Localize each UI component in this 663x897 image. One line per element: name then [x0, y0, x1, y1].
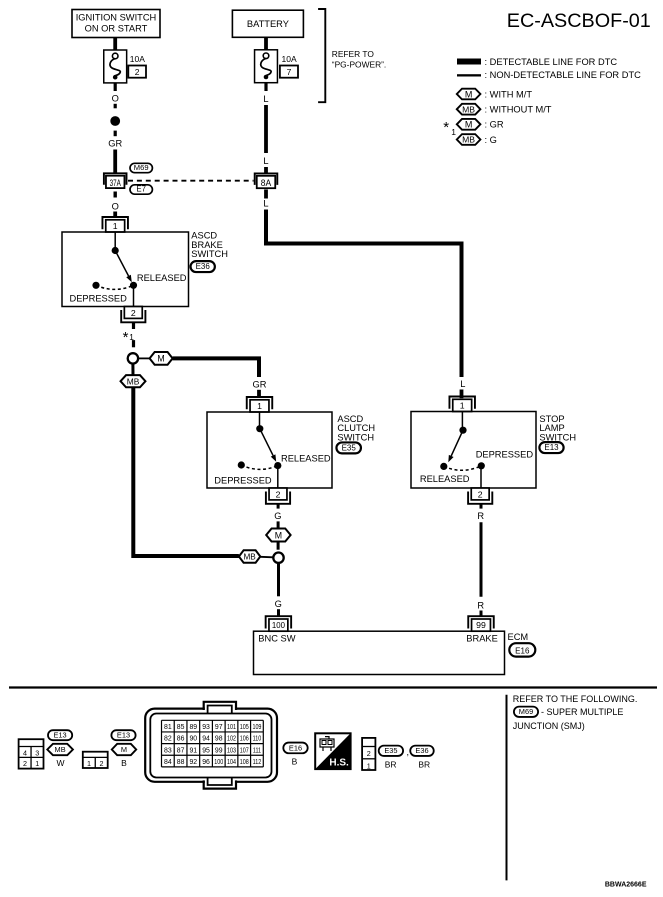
svg-text:E7: E7	[136, 184, 146, 193]
svg-text:1: 1	[257, 401, 262, 411]
svg-text:7: 7	[287, 67, 292, 77]
svg-text:MB: MB	[462, 104, 475, 114]
svg-text:: DETECTABLE LINE FOR DTC: : DETECTABLE LINE FOR DTC	[485, 57, 618, 67]
svg-text:1: 1	[87, 759, 91, 768]
svg-text:DEPRESSED: DEPRESSED	[70, 294, 128, 304]
svg-text:BBWA2666E: BBWA2666E	[605, 882, 647, 889]
svg-text:*: *	[123, 329, 129, 346]
svg-text:90: 90	[189, 736, 197, 743]
svg-text:99: 99	[476, 620, 486, 630]
svg-text:101: 101	[227, 723, 236, 731]
svg-text:“PG-POWER”.: “PG-POWER”.	[332, 59, 386, 69]
svg-text:100: 100	[214, 758, 223, 766]
svg-text:MB: MB	[243, 553, 256, 562]
svg-text:H.S.: H.S.	[329, 757, 349, 768]
svg-text:BNC SW: BNC SW	[258, 633, 295, 643]
svg-text:107: 107	[240, 747, 249, 755]
svg-text:93: 93	[202, 724, 210, 731]
svg-text:IGNITION SWITCH: IGNITION SWITCH	[76, 13, 157, 23]
svg-text:DEPRESSED: DEPRESSED	[476, 450, 534, 460]
svg-text:M: M	[275, 530, 282, 540]
svg-text:10A: 10A	[282, 54, 297, 64]
svg-text:: WITH M/T: : WITH M/T	[485, 89, 533, 99]
svg-text:E35: E35	[384, 746, 397, 755]
svg-text:4: 4	[23, 749, 27, 758]
svg-text:2: 2	[367, 749, 371, 758]
svg-text:97: 97	[215, 724, 223, 731]
svg-text:B: B	[121, 758, 127, 768]
svg-text:2: 2	[478, 490, 483, 500]
svg-text:M69: M69	[134, 163, 149, 172]
svg-text:86: 86	[177, 736, 185, 743]
svg-text:37A: 37A	[110, 178, 122, 188]
svg-text:O: O	[112, 94, 119, 104]
svg-text:: GR: : GR	[485, 120, 504, 130]
svg-text:: WITHOUT M/T: : WITHOUT M/T	[485, 105, 552, 115]
svg-text:ECM: ECM	[508, 632, 529, 642]
svg-text:E16: E16	[289, 743, 302, 752]
svg-text:M: M	[157, 354, 164, 364]
svg-text:96: 96	[202, 759, 210, 766]
svg-text:EC-ASCBOF-01: EC-ASCBOF-01	[507, 10, 651, 32]
svg-text:E36: E36	[196, 262, 211, 271]
svg-text:GR: GR	[253, 380, 267, 390]
svg-text:81: 81	[164, 724, 172, 731]
svg-text:91: 91	[189, 747, 197, 754]
svg-text:98: 98	[215, 736, 223, 743]
svg-text:RELEASED: RELEASED	[420, 474, 470, 484]
svg-text:1: 1	[367, 761, 371, 770]
svg-text:W: W	[56, 758, 64, 768]
svg-text:L: L	[263, 156, 268, 166]
svg-text:GR: GR	[108, 138, 122, 148]
svg-text:SWITCH: SWITCH	[337, 433, 374, 443]
svg-text:*: *	[443, 119, 449, 136]
svg-text:1: 1	[451, 127, 456, 137]
svg-text:89: 89	[189, 724, 197, 731]
svg-text:103: 103	[227, 747, 236, 755]
svg-text:RELEASED: RELEASED	[281, 453, 331, 463]
svg-text:: G: : G	[485, 135, 497, 145]
svg-text:E13: E13	[544, 443, 559, 452]
svg-text:G: G	[275, 599, 282, 609]
svg-text:L: L	[263, 94, 268, 104]
svg-text:82: 82	[164, 736, 172, 743]
svg-text:JUNCTION (SMJ): JUNCTION (SMJ)	[513, 721, 585, 731]
svg-text:REFER TO: REFER TO	[332, 49, 375, 59]
svg-text:88: 88	[177, 759, 185, 766]
svg-text:95: 95	[202, 747, 210, 754]
svg-text:1: 1	[460, 400, 465, 410]
svg-text:M: M	[465, 120, 473, 130]
svg-text:8A: 8A	[261, 178, 272, 188]
svg-text:O: O	[112, 201, 119, 211]
svg-text:100: 100	[272, 621, 285, 630]
svg-text:M: M	[121, 745, 127, 754]
svg-text:2: 2	[131, 308, 136, 318]
svg-text:DEPRESSED: DEPRESSED	[214, 475, 272, 485]
svg-text:2: 2	[100, 759, 104, 768]
svg-text:E16: E16	[515, 647, 530, 656]
svg-text:,: ,	[407, 747, 410, 757]
svg-text:87: 87	[177, 747, 185, 754]
svg-text:109: 109	[252, 723, 261, 731]
svg-text:85: 85	[177, 724, 185, 731]
svg-text:106: 106	[240, 735, 249, 743]
svg-text:108: 108	[240, 758, 249, 766]
svg-text:MB: MB	[55, 745, 66, 754]
svg-text:R: R	[477, 511, 484, 521]
svg-text:L: L	[460, 379, 465, 389]
svg-text:MB: MB	[462, 135, 475, 145]
svg-text:110: 110	[253, 735, 262, 743]
svg-text:BRAKE: BRAKE	[466, 633, 498, 643]
svg-text:92: 92	[189, 759, 197, 766]
svg-text:104: 104	[227, 758, 236, 766]
svg-text:- SUPER MULTIPLE: - SUPER MULTIPLE	[541, 707, 623, 717]
svg-text:102: 102	[227, 735, 236, 743]
svg-text:94: 94	[202, 736, 210, 743]
svg-text:BR: BR	[418, 759, 430, 769]
svg-text:99: 99	[215, 747, 223, 754]
svg-text:M69: M69	[519, 707, 533, 716]
svg-text:SWITCH: SWITCH	[191, 249, 228, 259]
svg-text:E13: E13	[54, 730, 67, 739]
svg-text:M: M	[465, 89, 473, 99]
svg-text:REFER TO THE FOLLOWING.: REFER TO THE FOLLOWING.	[513, 694, 638, 704]
svg-text:1: 1	[35, 759, 39, 768]
svg-text:E13: E13	[117, 730, 130, 739]
svg-text:B: B	[292, 757, 298, 767]
svg-text:ON OR START: ON OR START	[85, 24, 148, 34]
svg-text:R: R	[477, 600, 484, 610]
svg-text:10A: 10A	[130, 54, 145, 64]
svg-text:2: 2	[23, 759, 27, 768]
svg-text:83: 83	[164, 747, 172, 754]
svg-text:2: 2	[135, 67, 140, 77]
svg-text:E35: E35	[342, 443, 357, 452]
svg-text:BATTERY: BATTERY	[247, 19, 289, 29]
svg-text:84: 84	[164, 759, 172, 766]
svg-text:105: 105	[240, 723, 249, 731]
svg-text:: NON-DETECTABLE LINE FOR DTC: : NON-DETECTABLE LINE FOR DTC	[485, 70, 642, 80]
svg-text:1: 1	[113, 221, 118, 231]
svg-text:BR: BR	[385, 759, 397, 769]
svg-text:MB: MB	[127, 376, 140, 386]
svg-text:SWITCH: SWITCH	[539, 433, 576, 443]
svg-text:G: G	[274, 511, 281, 521]
svg-text:2: 2	[276, 490, 281, 500]
svg-text:112: 112	[253, 758, 262, 766]
svg-text:3: 3	[35, 749, 39, 758]
svg-text:L: L	[263, 199, 268, 209]
svg-text:E36: E36	[415, 746, 428, 755]
svg-text:RELEASED: RELEASED	[137, 273, 187, 283]
svg-text:111: 111	[253, 747, 262, 755]
